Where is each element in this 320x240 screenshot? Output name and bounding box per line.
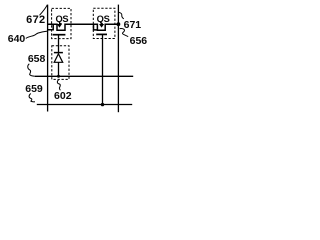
wire: diode anode lead bbox=[58, 62, 60, 76]
svg-text:672: 672 bbox=[26, 14, 45, 26]
dashed box around transistor Q1 bbox=[52, 8, 71, 38]
wire: Q1 gate lead down to diode bbox=[58, 35, 60, 53]
leader squiggle for 659 bbox=[29, 94, 35, 102]
dashed box around transistor Q2 bbox=[93, 8, 115, 38]
wire: left vertical bus (line 672/640) bbox=[47, 5, 49, 112]
arrow from QS label into Q2 bbox=[100, 22, 103, 27]
wire: right vertical bus (line 671/656) bbox=[117, 5, 119, 113]
wire: channel top line through both transistors bbox=[48, 24, 119, 30]
wire: horizontal line 659 bbox=[37, 104, 132, 106]
junction dot diode to line 658 bbox=[57, 75, 60, 78]
wire: Q1 source stub from left bus bbox=[48, 24, 54, 30]
leader for 640 bbox=[26, 31, 48, 38]
background bbox=[0, 0, 158, 120]
leader squiggle for 656 bbox=[120, 28, 129, 36]
svg-text:658: 658 bbox=[28, 53, 46, 65]
dashed box around photodiode 602 bbox=[52, 46, 69, 80]
arrow from QS label into Q1 bbox=[58, 22, 61, 27]
transistor Q2 gate bar bbox=[96, 33, 107, 35]
leader for 671 bbox=[119, 12, 124, 19]
diode D cathode bar bbox=[54, 52, 63, 54]
svg-text:QS: QS bbox=[97, 14, 110, 24]
junction dot on right bus at channel bbox=[117, 22, 121, 26]
svg-text:659: 659 bbox=[25, 83, 43, 95]
wire: Q2 gate lead down to bottom line bbox=[102, 34, 104, 104]
svg-text:QS: QS bbox=[55, 14, 68, 24]
leader squiggle for 658 bbox=[28, 64, 35, 76]
diode D triangle bbox=[54, 54, 63, 63]
svg-text:671: 671 bbox=[124, 19, 142, 31]
transistor Q1 gate bar bbox=[53, 34, 66, 36]
wire: horizontal line 658 bbox=[35, 75, 133, 77]
svg-text:656: 656 bbox=[130, 35, 148, 47]
leader squiggle for 602 bbox=[57, 80, 60, 90]
wire: Q2 source stub drop bbox=[94, 24, 99, 30]
svg-text:602: 602 bbox=[54, 90, 72, 102]
junction dot Q2 gate lead to line 659 bbox=[101, 103, 104, 106]
leader for 672 bbox=[40, 5, 48, 16]
svg-text:640: 640 bbox=[8, 33, 26, 45]
